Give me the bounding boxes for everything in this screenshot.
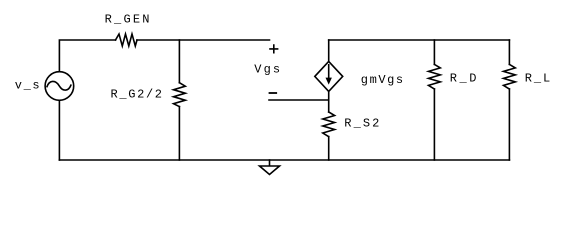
- wire diamond branch top: [328, 40, 330, 61]
- ground: [269, 160, 271, 166]
- wire - port terminal to R_S2 node: [269, 99, 329, 101]
- wire bottom rail: [59, 159, 509, 161]
- wire R_D bottom: [433, 89, 435, 160]
- resistor R_L: [504, 64, 516, 89]
- resistor R_G2/2: [174, 83, 186, 107]
- port terminal plus: [270, 45, 278, 53]
- resistor R_D: [429, 64, 441, 89]
- wire top-left segment (v_s top to R_GEN): [59, 40, 115, 72]
- wire R_G2/2 bottom: [178, 107, 180, 160]
- resistor R_S2: [323, 112, 335, 137]
- wire diamond bottom to R_S2: [328, 91, 330, 112]
- wire R_L bottom: [508, 89, 510, 160]
- wire R_GEN to + port terminal: [137, 39, 270, 41]
- wire R_G2/2 branch top: [178, 40, 180, 83]
- wire top-right rail: [329, 39, 510, 41]
- svg-text:R_L: R_L: [525, 71, 550, 85]
- dependent current source gmVgs: [315, 61, 343, 91]
- wire R_L branch top: [508, 40, 510, 64]
- resistor R_GEN: [116, 34, 138, 46]
- svg-text:R_GEN: R_GEN: [105, 13, 150, 27]
- svg-text:v_s: v_s: [15, 78, 40, 92]
- svg-text:Vgs: Vgs: [254, 63, 280, 77]
- wire R_D branch top: [433, 40, 435, 64]
- wire R_S2 bottom: [328, 137, 330, 160]
- svg-text:gmVgs: gmVgs: [361, 73, 403, 87]
- port terminal minus: [270, 92, 277, 94]
- svg-text:R_D: R_D: [450, 71, 477, 85]
- voltage source v_s: [45, 72, 74, 101]
- wire v_s bottom to bottom rail: [58, 100, 60, 160]
